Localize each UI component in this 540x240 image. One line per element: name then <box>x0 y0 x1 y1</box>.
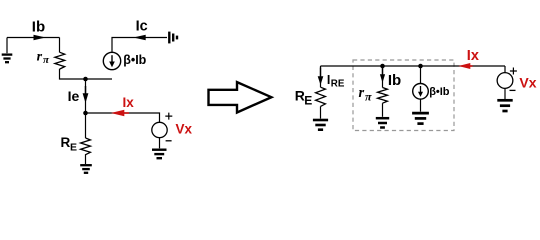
svg-text:Vx: Vx <box>519 75 536 91</box>
node dot current-source branch <box>418 64 423 69</box>
node dot r_pi branch <box>380 64 385 69</box>
svg-text:β•Ib: β•Ib <box>123 53 146 67</box>
wire: rail corner down to V2 <box>504 66 506 73</box>
node dot (emitter / RE / Vx) <box>83 111 88 116</box>
ground under RE (right) <box>313 120 328 130</box>
minus sign V2 <box>510 89 516 91</box>
Ix current arrow (right, red) <box>466 65 473 67</box>
svg-text:Ib: Ib <box>32 18 45 35</box>
wire: corner down into r_pi <box>59 38 61 53</box>
ground under V2 <box>497 100 512 111</box>
wire: r_pi bottom to rail <box>60 69 113 79</box>
Ib current arrow <box>34 35 46 40</box>
current source U1 (beta*Ib) <box>103 52 120 69</box>
svg-text:r: r <box>37 50 43 65</box>
resistor r_pi (right) <box>378 88 388 104</box>
wire: RE branch down <box>320 66 322 87</box>
wire: emitter down <box>85 79 87 113</box>
ground under U2 <box>412 113 429 124</box>
voltage source V2 (Vx right) <box>497 73 513 89</box>
resistor r_pi (left) <box>55 52 65 69</box>
svg-text:E: E <box>304 94 312 108</box>
Ix current arrow (left, red) <box>120 112 129 114</box>
ground under r_pi (right) <box>376 118 389 127</box>
svg-text:Ie: Ie <box>68 88 80 104</box>
junction dot emitter rail <box>83 77 88 82</box>
voltage source V1 (Vx left) <box>152 122 167 137</box>
Ie current arrow <box>85 86 87 94</box>
IRE current arrow <box>320 68 322 78</box>
plus sign V2 <box>510 68 517 75</box>
ground G1 top-left <box>2 38 13 63</box>
wire: V2 bottom to ground <box>504 88 506 99</box>
Ib current arrow (right) <box>382 68 384 76</box>
svg-text:RE: RE <box>331 78 345 89</box>
resistor RE (left) <box>81 138 91 155</box>
wire: source top to collector rail <box>112 38 167 53</box>
svg-text:R: R <box>61 135 71 150</box>
plus sign V1 <box>165 113 172 120</box>
wire: RE right bottom <box>320 106 322 118</box>
svg-text:β•Ib: β•Ib <box>429 86 450 98</box>
svg-text:Ix: Ix <box>467 48 479 64</box>
svg-text:Ib: Ib <box>388 72 401 89</box>
wire base: ground to r_pi top <box>7 37 60 39</box>
svg-text:r: r <box>359 85 365 101</box>
wire: r_pi branch down <box>382 66 384 88</box>
minus sign V1 <box>166 140 172 142</box>
ground G4 under RE <box>80 165 92 173</box>
wire: source branch down <box>420 66 422 84</box>
wire: U2 bottom <box>420 99 422 112</box>
svg-text:Ix: Ix <box>123 95 135 110</box>
ground G2 rotated (collector) <box>169 32 177 44</box>
wire: r_pi right bottom <box>382 103 384 117</box>
dashed box <box>353 60 454 131</box>
top rail (right circuit) <box>321 65 506 67</box>
current source U2 (beta*Ib right) <box>413 84 429 100</box>
wire: RE bottom to ground <box>85 154 87 164</box>
wire: V1 bottom to ground <box>159 138 161 149</box>
resistor RE (right) <box>316 87 326 106</box>
Ic current arrow <box>133 35 145 40</box>
svg-text:π: π <box>43 54 50 66</box>
wire: node down to RE <box>85 113 87 138</box>
wire: node to Vx source <box>86 113 160 122</box>
svg-text:Vx: Vx <box>176 121 193 136</box>
svg-text:Ic: Ic <box>136 18 148 34</box>
big implication arrow <box>209 82 272 112</box>
svg-text:π: π <box>365 90 372 104</box>
ground G3 under V1 <box>152 150 167 159</box>
svg-text:E: E <box>70 141 77 153</box>
